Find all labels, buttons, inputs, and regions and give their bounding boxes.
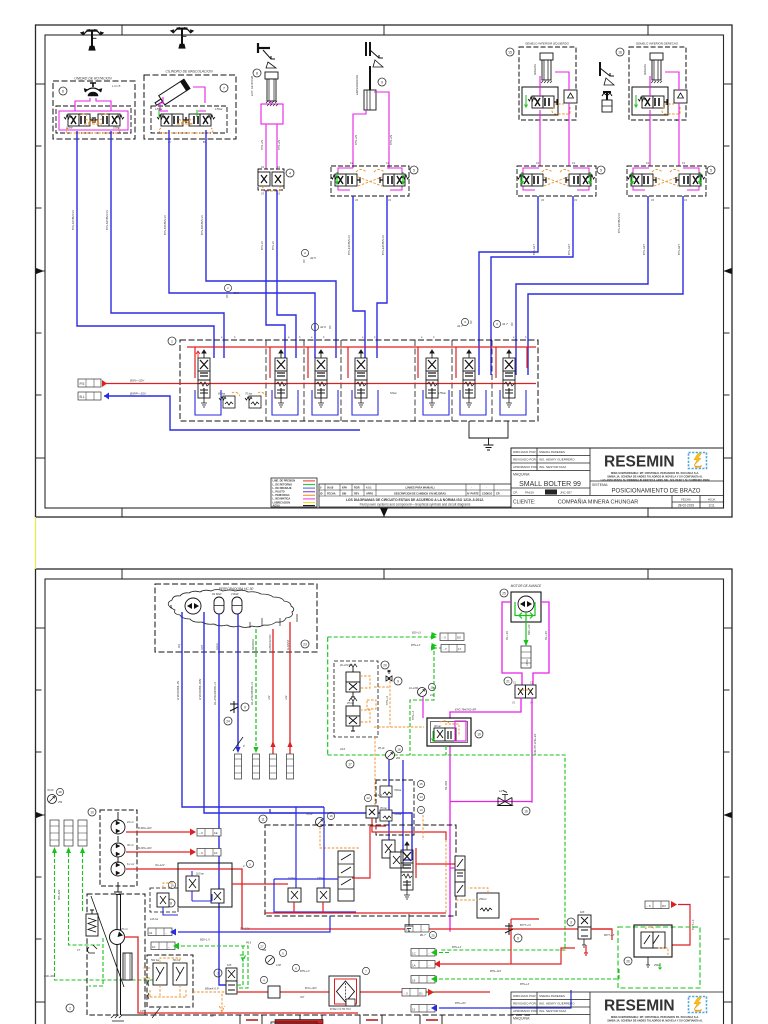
- svg-text:B7N-G1T: B7N-G1T: [532, 244, 536, 255]
- svg-text:4.98: 4.98: [276, 964, 281, 967]
- svg-text:COMPAÑIA MINERA CHUNGAR: COMPAÑIA MINERA CHUNGAR: [558, 499, 639, 506]
- svg-text:MINA SUBTERRANEA: MT. CRISTOBA: MINA SUBTERRANEA: MT. CRISTOBAL PERUANOS…: [611, 471, 699, 475]
- svg-text:8: 8: [170, 902, 172, 906]
- svg-text:→3: →3: [198, 831, 203, 835]
- svg-text:B7N-L2V: B7N-L2V: [390, 135, 393, 145]
- svg-text:B7N-L2V: B7N-L2V: [278, 140, 281, 150]
- svg-text:PA619: PA619: [525, 491, 534, 495]
- svg-text:28-02-2019: 28-02-2019: [678, 504, 695, 508]
- svg-text:40–100 bar: 40–100 bar: [340, 664, 353, 667]
- svg-text:JNC-557: JNC-557: [560, 491, 572, 495]
- svg-text:AHAD33R99–RMV: AHAD33R99–RMV: [199, 678, 202, 700]
- svg-text:25: 25: [502, 592, 506, 596]
- svg-text:B7N-L2V: B7N-L2V: [355, 135, 358, 145]
- svg-text:16: 16: [329, 814, 333, 818]
- svg-text:25 ccr: 25 ccr: [120, 928, 128, 931]
- svg-text:B7N-G3T: B7N-G3T: [642, 244, 646, 255]
- svg-text:10: 10: [152, 945, 156, 949]
- svg-text:B377–LX: B377–LX: [604, 934, 615, 937]
- svg-text:10: 10: [90, 811, 94, 815]
- svg-text:4 BAR: 4 BAR: [231, 592, 239, 596]
- svg-text:52bar: 52bar: [390, 391, 397, 395]
- svg-text:10–10M: 10–10M: [409, 687, 419, 690]
- svg-text:←: ←: [168, 945, 171, 949]
- svg-text:12: 12: [366, 796, 370, 800]
- svg-text:Fluid power systems and compon: Fluid power systems and component—Graphi…: [360, 503, 471, 507]
- svg-text:76,60: 76,60: [306, 813, 313, 816]
- svg-text:203: 203: [395, 757, 401, 760]
- svg-text:LUBRICACION: LUBRICACION: [269, 634, 272, 651]
- svg-text:ENG.76#/2N2–ER: ENG.76#/2N2–ER: [455, 708, 476, 712]
- svg-text:D5: D5: [457, 636, 461, 640]
- svg-text:DIBUJADO POR:: DIBUJADO POR:: [513, 450, 537, 454]
- svg-text:ING. NESTOR DIAZ: ING. NESTOR DIAZ: [539, 1009, 566, 1013]
- svg-text:15: 15: [508, 51, 512, 55]
- svg-text:BARRIDO: BARRIDO: [252, 639, 255, 650]
- svg-text:DESCRIPCION DE CAMBIOS Y/N MEJ: DESCRIPCION DE CAMBIOS Y/N MEJORAS: [394, 493, 446, 496]
- svg-text:AVANZAR: AVANZAR: [644, 64, 647, 75]
- svg-text:B5PP—32V: B5PP—32V: [130, 392, 147, 396]
- svg-text:REV: REV: [354, 493, 359, 496]
- svg-text:P.00–32V: P.00–32V: [44, 975, 55, 978]
- svg-text:25: 25: [431, 934, 435, 938]
- svg-text:R1 BAR: R1 BAR: [212, 592, 221, 596]
- svg-text:B.L: B.L: [80, 395, 85, 399]
- svg-text:O4–12V: O4–12V: [155, 863, 165, 867]
- svg-text:AVANZAR: AVANZAR: [534, 64, 537, 75]
- svg-text:B7N–LX: B7N–LX: [412, 710, 415, 720]
- svg-text:65 bar: 65 bar: [218, 392, 225, 396]
- svg-text:B7N-R2T/B2V-LV: B7N-R2T/B2V-LV: [105, 210, 109, 230]
- svg-text:3: 3: [570, 921, 572, 925]
- svg-text:B.3PG–32V: B.3PG–32V: [138, 826, 152, 830]
- svg-text:POSICIONAMIENTO DE BRAZO: POSICIONAMIENTO DE BRAZO: [612, 489, 701, 495]
- svg-text:L. DE DRENAJE: L. DE DRENAJE: [273, 487, 292, 490]
- svg-text:B5N—32V: B5N—32V: [130, 379, 145, 383]
- svg-text:N° PARTE: N° PARTE: [467, 493, 479, 496]
- svg-text:17: 17: [458, 647, 462, 651]
- svg-text:B7N–LX: B7N–LX: [300, 969, 310, 973]
- svg-text:20: 20: [383, 664, 387, 668]
- svg-text:APROBADO POR:: APROBADO POR:: [513, 1009, 538, 1013]
- svg-text:19: 19: [477, 733, 481, 737]
- svg-text:25bar: 25bar: [653, 964, 661, 967]
- svg-text:3: 3: [217, 972, 219, 976]
- svg-text:17: 17: [348, 763, 352, 767]
- svg-text:5: 5: [600, 169, 602, 173]
- svg-text:B7N-L2V: B7N-L2V: [261, 140, 264, 150]
- svg-text:D3: D3: [662, 904, 666, 908]
- svg-text:B15–LX: B15–LX: [412, 632, 421, 635]
- svg-text:SMALL BOLTER 99: SMALL BOLTER 99: [519, 481, 581, 488]
- svg-text:SNEIDA PAREDES: SNEIDA PAREDES: [539, 994, 565, 998]
- svg-text:24: 24: [226, 720, 230, 724]
- svg-text:B05–L.V: B05–L.V: [200, 938, 210, 942]
- svg-text:B7N-R1T/B2V-LV: B7N-R1T/B2V-LV: [617, 213, 621, 233]
- svg-text:B7N-B2T/B2V-LV: B7N-B2T/B2V-LV: [200, 215, 204, 235]
- svg-text:←: ←: [422, 927, 425, 931]
- svg-text:3R–32N: 3R–32N: [445, 781, 448, 790]
- svg-text:562 bar: 562 bar: [151, 959, 160, 962]
- svg-text:GEMELO INFERIOR IZQUIERDO: GEMELO INFERIOR IZQUIERDO: [525, 42, 570, 46]
- svg-text:CP:: CP:: [496, 493, 500, 496]
- svg-text:3V–L2V: 3V–L2V: [506, 631, 509, 640]
- svg-text:44.0: 44.0: [340, 747, 346, 751]
- svg-text:45 bar: 45 bar: [347, 702, 354, 705]
- svg-text:CLIENTE:: CLIENTE:: [513, 500, 536, 506]
- svg-text:B.2PG–32V: B.2PG–32V: [138, 846, 152, 850]
- svg-text:B7N–L2: B7N–L2: [386, 695, 389, 705]
- svg-text:B7N-G2T: B7N-G2T: [567, 244, 571, 255]
- svg-text:ID: ID: [320, 493, 323, 496]
- svg-text:FECHA: FECHA: [327, 493, 336, 496]
- svg-text:3/4": 3/4": [300, 996, 304, 999]
- svg-text:43 ccr: 43 ccr: [127, 821, 134, 824]
- svg-text:170bar: 170bar: [215, 108, 223, 111]
- svg-text:B5bar4.8_P: B5bar4.8_P: [205, 987, 219, 991]
- svg-text:RESEMIN: RESEMIN: [604, 454, 675, 471]
- svg-text:9: 9: [397, 680, 399, 684]
- svg-text:APRO: APRO: [366, 493, 373, 496]
- svg-text:170bar: 170bar: [155, 108, 163, 111]
- svg-text:ING. NESTOR DIAZ: ING. NESTOR DIAZ: [539, 465, 566, 469]
- svg-text:→3: →3: [403, 991, 408, 995]
- svg-text:KPA: KPA: [342, 487, 347, 490]
- svg-text:F28: F28: [580, 911, 585, 914]
- svg-text:1E: 1E: [214, 831, 218, 835]
- svg-text:6: 6: [62, 90, 64, 94]
- svg-text:13: 13: [419, 808, 423, 812]
- svg-text:18: 18: [58, 790, 62, 794]
- svg-text:B7N-E1T/B2V-LV: B7N-E1T/B2V-LV: [347, 235, 351, 255]
- svg-text:CP:: CP:: [513, 491, 518, 495]
- svg-text:D1: D1: [419, 991, 423, 995]
- svg-text:DIBUJADO POR:: DIBUJADO POR:: [513, 994, 537, 998]
- svg-text:10bar: 10bar: [66, 126, 73, 130]
- svg-text:←: ←: [165, 931, 168, 935]
- svg-text:2r: 2r: [565, 119, 568, 122]
- svg-text:27: 27: [260, 945, 264, 949]
- svg-text:16: 16: [524, 810, 528, 814]
- svg-text:3r: 3r: [645, 119, 647, 122]
- svg-text:41.7: 41.7: [502, 322, 508, 326]
- svg-text:42.0: 42.0: [320, 325, 326, 329]
- svg-text:3V–L2V: 3V–L2V: [545, 631, 548, 640]
- svg-text:B 502.1 N TR 70.6: B 502.1 N TR 70.6: [330, 1008, 351, 1011]
- svg-text:1/8": 1/8": [140, 1010, 144, 1013]
- svg-text:SERIE:: SERIE:: [546, 491, 556, 495]
- svg-text:SIMBA JA. SCHEMA DE ANDES TALA: SIMBA JA. SCHEMA DE ANDES TALADROS M. NO…: [607, 1019, 703, 1023]
- svg-text:15: 15: [412, 1007, 416, 1011]
- svg-text:DIB: DIB: [342, 493, 347, 496]
- svg-text:38 ccr: 38 ccr: [127, 844, 134, 847]
- svg-text:19: 19: [170, 884, 174, 888]
- svg-text:←: ←: [428, 978, 431, 982]
- svg-text:ROR: ROR: [354, 487, 360, 490]
- svg-text:4.0.1: 4.0.1: [366, 487, 372, 490]
- svg-text:B7N–12X: B7N–12X: [490, 969, 501, 973]
- svg-text:9: 9: [381, 81, 383, 85]
- svg-text:UNIDAD DE ROTACION: UNIDAD DE ROTACION: [74, 77, 112, 81]
- svg-text:REVISADO POR:: REVISADO POR:: [513, 458, 537, 462]
- svg-text:15: 15: [419, 782, 423, 786]
- svg-text:B05–32V: B05–32V: [58, 889, 61, 900]
- svg-text:GEMELO INFERIOR DERECHO: GEMELO INFERIOR DERECHO: [636, 42, 679, 46]
- svg-text:ENG.767.ENG–ER: ENG.767.ENG–ER: [534, 734, 537, 755]
- svg-text:LINE. DE PRESION: LINE. DE PRESION: [273, 480, 296, 483]
- svg-text:2: 2: [69, 1007, 71, 1011]
- svg-text:EMPERNADOR: EMPERNADOR: [355, 75, 359, 95]
- svg-text:HOJA: HOJA: [708, 498, 716, 502]
- svg-text:5: 5: [710, 169, 712, 173]
- svg-text:42.5: 42.5: [310, 256, 316, 260]
- svg-text:B7N-E2T/B2V-LV: B7N-E2T/B2V-LV: [381, 235, 385, 255]
- svg-text:56 Cor: 56 Cor: [173, 959, 181, 962]
- svg-text:P.5: P.5: [80, 382, 85, 386]
- svg-text:B7N-R1T/B2V-LV: B7N-R1T/B2V-LV: [71, 210, 75, 230]
- svg-text:250cor: 250cor: [478, 898, 487, 901]
- svg-text:P: P: [243, 744, 245, 748]
- svg-text:B77T–LX: B77T–LX: [692, 919, 695, 930]
- svg-text:76 bar: 76 bar: [380, 807, 387, 810]
- svg-text:26: 26: [626, 960, 630, 964]
- svg-text:110 bar: 110 bar: [150, 918, 158, 921]
- svg-text:SNEIDA PAREDES: SNEIDA PAREDES: [539, 450, 565, 454]
- svg-text:L2V: L2V: [268, 695, 271, 700]
- svg-text:P6.8: P6.8: [246, 942, 252, 945]
- svg-text:REVISADO POR:: REVISADO POR:: [513, 1002, 537, 1006]
- svg-text:D7–12V: D7–12V: [240, 927, 250, 931]
- svg-text:00.08: 00.08: [327, 487, 334, 490]
- svg-text:250: 250: [57, 801, 63, 804]
- svg-text:B7N-LV: B7N-LV: [271, 241, 275, 250]
- svg-text:MOTOR DE AVANCE: MOTOR DE AVANCE: [511, 584, 543, 588]
- svg-text:FECHA: FECHA: [681, 498, 691, 502]
- svg-text:7: 7: [223, 87, 225, 91]
- svg-text:700bar: 700bar: [394, 813, 402, 816]
- svg-text:31: 31: [149, 931, 153, 935]
- svg-text:ING. HENRY GUERRERO: ING. HENRY GUERRERO: [539, 458, 575, 462]
- svg-text:A2–AHAD33R99–LV: A2–AHAD33R99–LV: [251, 682, 254, 705]
- svg-text:A.S.L: A.S.L: [90, 116, 97, 120]
- svg-text:Ø1.7: Ø1.7: [419, 933, 426, 937]
- svg-text:L2V: L2V: [285, 695, 288, 700]
- svg-text:MAQUINA:: MAQUINA:: [513, 473, 530, 477]
- svg-text:L3 SR: L3 SR: [526, 659, 529, 666]
- svg-text:→3: →3: [198, 851, 203, 855]
- svg-text:3r: 3r: [535, 119, 537, 122]
- svg-text:B7N–LX: B7N–LX: [452, 946, 462, 949]
- svg-text:L. NEUMATICA: L. NEUMATICA: [273, 498, 291, 501]
- svg-text:14: 14: [419, 795, 423, 799]
- svg-text:AHAD33R99–RV: AHAD33R99–RV: [177, 681, 180, 700]
- svg-text:B7N-B1T/B2V-LV: B7N-B1T/B2V-LV: [163, 215, 167, 235]
- svg-text:EXT. DE BOOM: EXT. DE BOOM: [250, 75, 254, 96]
- svg-text:23: 23: [303, 643, 307, 647]
- svg-text:42.0: 42.0: [233, 291, 239, 295]
- svg-text:SIMBA JA. SCHEMA DE ANDES TALA: SIMBA JA. SCHEMA DE ANDES TALADROS M. NO…: [607, 475, 703, 479]
- svg-text:B7N–LX: B7N–LX: [520, 983, 530, 986]
- svg-text:F25: F25: [227, 964, 232, 967]
- svg-text:CODIGO: CODIGO: [482, 493, 492, 496]
- svg-text:45,10: 45,10: [378, 747, 385, 750]
- svg-text:L. PILOTO: L. PILOTO: [273, 491, 285, 494]
- svg-text:AGUA: AGUA: [273, 505, 281, 508]
- svg-text:18: 18: [430, 686, 434, 690]
- svg-text:B77T–LX: B77T–LX: [520, 923, 531, 927]
- svg-text:1A: 1A: [412, 963, 416, 967]
- svg-text:11: 11: [261, 818, 265, 822]
- svg-text:B7N-G4T: B7N-G4T: [677, 244, 681, 255]
- svg-text:(JANES PARA MANUAL): (JANES PARA MANUAL): [405, 487, 434, 490]
- svg-text:700bar: 700bar: [394, 789, 402, 792]
- svg-text:18: 18: [397, 748, 401, 752]
- svg-text:41.7: 41.7: [457, 324, 463, 328]
- svg-text:70 bar: 70 bar: [245, 392, 252, 396]
- svg-text:110 bar: 110 bar: [196, 873, 204, 876]
- svg-text:21: 21: [506, 680, 510, 684]
- svg-text:4: 4: [289, 172, 291, 176]
- svg-text:19: 19: [412, 978, 416, 982]
- svg-text:B.Pu–32V: B.Pu–32V: [305, 986, 317, 990]
- svg-text:1/11: 1/11: [709, 504, 715, 508]
- svg-text:6,1 ccr: 6,1 ccr: [127, 863, 135, 866]
- svg-text:ING. HENRY GUERRERO: ING. HENRY GUERRERO: [539, 1002, 575, 1006]
- svg-text:175bar: 175bar: [438, 391, 446, 395]
- svg-text:A2–AHAD33R99–LV: A2–AHAD33R99–LV: [214, 682, 217, 705]
- svg-text:RESEMIN: RESEMIN: [604, 998, 675, 1015]
- svg-text:5: 5: [413, 169, 415, 173]
- svg-text:→7: →7: [442, 647, 447, 651]
- svg-text:L.N.=5: L.N.=5: [112, 84, 121, 88]
- svg-text:APROBADO POR:: APROBADO POR:: [513, 465, 538, 469]
- svg-text:9: 9: [517, 937, 519, 941]
- svg-text:←5: ←5: [646, 904, 651, 908]
- svg-text:L. PERFORAC.: L. PERFORAC.: [273, 494, 291, 497]
- svg-text:1F: 1F: [214, 851, 218, 855]
- svg-text:8: 8: [256, 72, 258, 76]
- svg-text:←: ←: [428, 951, 431, 955]
- svg-text:IZQ: IZQ: [178, 644, 181, 648]
- svg-text:R0.12V: R0.12V: [374, 794, 383, 797]
- svg-text:→3: →3: [441, 636, 446, 640]
- svg-text:90 bar: 90 bar: [434, 725, 441, 728]
- svg-text:9: 9: [244, 706, 246, 710]
- svg-text:1: 1: [171, 340, 173, 344]
- svg-text:SISTEMA:: SISTEMA:: [592, 483, 608, 487]
- svg-text:2r: 2r: [675, 119, 678, 122]
- svg-text:←: ←: [428, 1007, 431, 1011]
- svg-text:←: ←: [428, 963, 431, 967]
- svg-text:L. DE RETORNO: L. DE RETORNO: [273, 483, 293, 486]
- svg-text:16: 16: [618, 51, 622, 55]
- svg-text:MAQUINA:: MAQUINA:: [513, 1017, 530, 1021]
- svg-text:CILINDRO DE BASCULACION: CILINDRO DE BASCULACION: [165, 70, 213, 74]
- svg-text:10bar: 10bar: [113, 126, 120, 130]
- svg-text:3N8–L2V: 3N8–L2V: [528, 624, 531, 635]
- svg-text:70,60: 70,60: [47, 789, 54, 792]
- svg-text:B7N–LX: B7N–LX: [411, 644, 421, 647]
- svg-text:MINA SUBTERRANEA: MT. CRISTOBA: MINA SUBTERRANEA: MT. CRISTOBAL PERUANOS…: [611, 1015, 699, 1019]
- svg-text:LAS AMSI PENTA SU PRIMERA IN P: LAS AMSI PENTA SU PRIMERA IN PARTICULARE…: [601, 478, 710, 482]
- svg-text:B7N-LV: B7N-LV: [260, 241, 264, 250]
- svg-text:B7N–12X: B7N–12X: [455, 1002, 466, 1005]
- svg-text:LOS DIAGRAMAS DE CIRCUITO ESTA: LOS DIAGRAMAS DE CIRCUITO ESTAN DE ACUER…: [346, 498, 484, 502]
